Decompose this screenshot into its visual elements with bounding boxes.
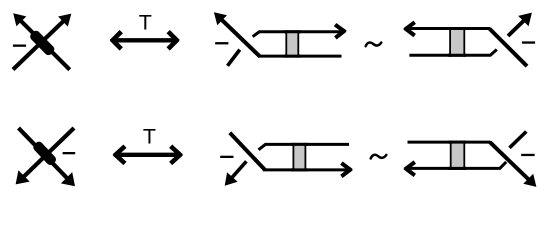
tangle1: under strand stub to SW	[228, 50, 240, 66]
tangle2: minus sign	[522, 41, 535, 43]
tangle3: bottom line with right arrowhead	[263, 168, 349, 171]
svg-text:T: T	[139, 11, 152, 35]
tangle3: under strand arrow to SW	[231, 161, 246, 178]
tangle3: strand lines across box	[291, 143, 308, 146]
crossing icon row2: strand NW-SE with arrow to lower-right	[19, 128, 68, 179]
tangle4: strand lines across box	[448, 141, 466, 144]
tangle4: top line	[408, 141, 491, 144]
crossing icon row2: minus sign on right	[63, 152, 76, 154]
crossing icon row1: minus sign on left	[13, 45, 26, 47]
tangle2: strand lines across box	[448, 27, 466, 30]
tilde row1	[366, 42, 382, 46]
tangle2: bottom line with right hook	[409, 50, 496, 56]
tangle1: minus sign	[215, 42, 228, 44]
tangle3: over strand from NW stub to bottom line	[230, 133, 265, 170]
tangle2: twist box	[450, 29, 464, 56]
crossing icon row2: thick crossing blob	[32, 140, 58, 167]
tangle4: over strand from top line to SE arrow	[490, 142, 530, 180]
svg-text:T: T	[143, 125, 156, 149]
tangle1: over strand from bottom line to NW arrow	[221, 19, 260, 57]
tangle4: under strand stub to NE	[510, 132, 527, 148]
tangle1: bottom line	[259, 55, 342, 58]
tangle1: strand lines across box	[284, 30, 301, 33]
tangle1: twist box	[286, 32, 298, 56]
tangle4: minus sign	[521, 154, 534, 156]
double-headed arrow row2	[115, 153, 180, 157]
tangle4: twist box	[451, 142, 465, 168]
tangle3: twist box	[293, 144, 305, 170]
tilde row2	[371, 155, 387, 159]
tangle1: top line (under strand) with left hook	[253, 32, 342, 37]
tangle3: minus sign	[220, 156, 233, 158]
crossing icon row1: strand SW-NE with arrow to upper-right	[13, 21, 64, 70]
crossing icon row1: thick crossing blob	[28, 29, 56, 57]
tangle1: right arrowhead on top line	[334, 23, 347, 34]
crossing icon row1: strand NW-SE with arrow to upper-left	[20, 20, 69, 69]
tangle3: top line (under strand) with left hook	[259, 144, 350, 149]
tangle2: over strand from top line to SE	[489, 29, 527, 67]
tangle4: bottom line with left arrowhead and right hook	[408, 162, 506, 169]
tangle2: under strand arrow to NE	[508, 20, 525, 36]
double-headed arrow row1	[113, 38, 177, 42]
tangle2: top line with left arrowhead	[406, 27, 490, 30]
crossing icon row2: strand NE-SW with arrow to lower-left	[23, 128, 74, 178]
